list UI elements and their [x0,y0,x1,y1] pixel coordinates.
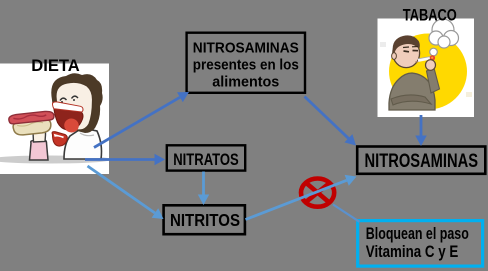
svg-text:NITRITOS: NITRITOS [170,210,240,230]
svg-text:NITRATOS: NITRATOS [173,151,239,169]
svg-text:NITROSAMINAS: NITROSAMINAS [193,40,299,57]
svg-text:Vitamina C y E: Vitamina C y E [366,243,459,261]
svg-text:Bloquean el paso: Bloquean el paso [366,225,469,243]
svg-text:NITROSAMINAS: NITROSAMINAS [365,151,479,172]
svg-text:DIETA: DIETA [31,57,80,75]
svg-text:presentes en los: presentes en los [193,57,299,74]
svg-text:alimentos: alimentos [212,74,279,91]
svg-text:TABACO: TABACO [403,7,457,25]
